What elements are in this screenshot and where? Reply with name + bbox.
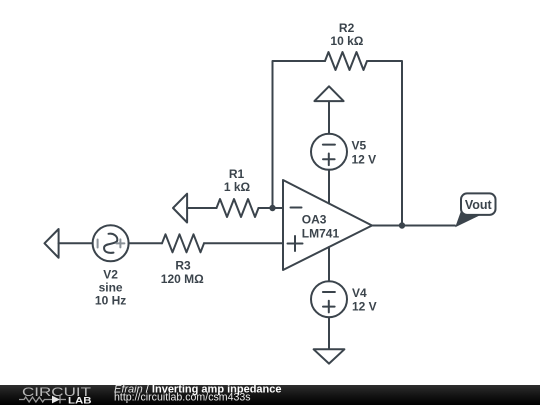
op-amp plus: [288, 243, 303, 245]
wire V2 to R3: [129, 242, 162, 244]
svg-text:OA3: OA3: [302, 213, 327, 227]
svg-text:1 kΩ: 1 kΩ: [224, 180, 251, 194]
V4 wire from op-amp bottom: [328, 247, 330, 281]
footer bar: [0, 385, 540, 405]
Vout flag box: [461, 193, 496, 215]
svg-text:R1: R1: [229, 167, 245, 181]
V5 wire to op-amp top: [328, 170, 330, 204]
svg-text:LM741: LM741: [302, 226, 340, 240]
junction node at inverting input: [269, 205, 275, 211]
op-amp OA3 triangle: [283, 180, 372, 270]
resistor R2: [325, 52, 367, 70]
wire op-amp output: [372, 225, 455, 227]
svg-text:120 MΩ: 120 MΩ: [161, 272, 204, 286]
svg-text:10 Hz: 10 Hz: [95, 294, 126, 308]
svg-text:12 V: 12 V: [352, 152, 377, 166]
svg-text:Vout: Vout: [465, 198, 493, 212]
power flag arrow (up): [314, 86, 343, 101]
wire R1 flag to R1: [187, 207, 216, 209]
voltage source V2 (sine): [93, 225, 129, 261]
svg-text:12 V: 12 V: [352, 300, 377, 314]
op-amp minus: [291, 207, 302, 209]
svg-text:V2: V2: [103, 268, 118, 282]
svg-text:sine: sine: [99, 281, 123, 295]
wire V4 to ground: [328, 317, 330, 349]
svg-text:http://circuitlab.com/csm433s: http://circuitlab.com/csm433s: [114, 392, 251, 404]
svg-text:V5: V5: [352, 139, 367, 153]
svg-text:R3: R3: [175, 259, 191, 273]
feedback wire right vertical: [368, 61, 402, 226]
net flag arrow (left of V2): [45, 229, 59, 258]
junction node at output: [399, 222, 405, 228]
feedback wire left vertical: [273, 61, 326, 208]
wire R3 to op-amp + input: [204, 242, 283, 244]
svg-text:V4: V4: [352, 286, 367, 300]
ground symbol: [314, 349, 345, 363]
wire V5 to power flag: [328, 101, 330, 134]
net flag arrow (left of R1): [173, 194, 187, 223]
wire V2 flag to V2: [59, 242, 93, 244]
resistor R1: [217, 199, 259, 217]
svg-text:10 kΩ: 10 kΩ: [330, 34, 363, 48]
footer logo resistor-diode squiggle: [19, 396, 66, 404]
svg-text:R2: R2: [339, 21, 355, 35]
wire R1 to op-amp - input: [259, 207, 284, 209]
voltage source V4: [311, 281, 347, 317]
Vout flag tail: [455, 204, 479, 227]
svg-text:LAB: LAB: [68, 396, 92, 405]
resistor R3: [162, 234, 204, 252]
voltage source V5: [311, 134, 347, 170]
